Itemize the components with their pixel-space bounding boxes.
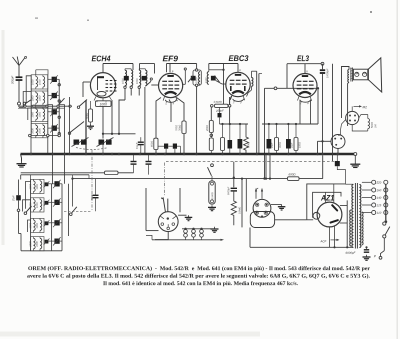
wire block1 row2 blob — [48, 95, 52, 97]
wire bus right end — [354, 156, 356, 163]
capacitor 200pF antenna — [16, 76, 23, 78]
capacitor 25uF b — [286, 139, 291, 149]
switch lever block2 — [26, 206, 32, 212]
switch lever 4 — [70, 122, 84, 133]
IF transformer 3 frame — [193, 70, 201, 85]
label coil L1b — [39, 79, 41, 84]
wire mains down — [383, 238, 385, 251]
label 25uF 300 — [271, 142, 273, 148]
resistor pot lower — [209, 138, 213, 151]
wire EF9 drop mid — [169, 100, 171, 123]
scan edge left — [2, 30, 5, 245]
osc coil L8b — [40, 238, 42, 249]
wire block2 bottom — [21, 250, 62, 252]
label AZ1 — [321, 195, 334, 201]
caption line 1 — [28, 266, 370, 271]
wire block1 left loop3 — [28, 108, 31, 120]
label coil L3a — [32, 112, 34, 117]
label ECH4 — [92, 56, 111, 62]
ground right — [354, 162, 356, 164]
label IF3 — [196, 78, 198, 83]
wire PU shell to AZ1 — [275, 219, 307, 221]
wire socket M2 bottom — [341, 120, 346, 136]
terminal block1 bottom — [29, 134, 32, 137]
wire block2 left loop3 — [28, 220, 31, 232]
wire y88 line — [265, 87, 319, 89]
wire M2 stem — [351, 106, 353, 111]
resistor 150ohm — [294, 138, 298, 151]
label 10000pF EL3 — [327, 68, 329, 78]
wire lamps rail — [182, 228, 211, 230]
wire switch block2 drop — [18, 212, 20, 234]
dial lamp 3 — [200, 228, 202, 230]
terminal EL3 toprail — [321, 62, 324, 65]
wire AVC cont — [118, 172, 134, 174]
ground PU — [281, 205, 283, 207]
label coil L2b — [39, 96, 41, 101]
wire block1 row3 blob — [48, 111, 52, 113]
trimmer capacitor block1 row3 — [52, 109, 57, 114]
rotor lever — [162, 198, 166, 212]
variable capacitor TC1 — [74, 140, 80, 145]
dial lamp 2 — [192, 228, 194, 230]
wire block1 row4 blob — [48, 127, 52, 129]
junction y124 — [268, 123, 270, 125]
capacitor 25uF EL3 — [267, 139, 272, 149]
label 50k b — [247, 142, 249, 148]
ground lamps — [214, 227, 216, 229]
label 700ohm — [175, 125, 177, 131]
wire IF2 drop — [138, 89, 140, 96]
switch bus line a — [18, 105, 72, 107]
IF2 terminals — [138, 86, 140, 88]
antenna coil L3a — [36, 109, 38, 120]
wire block1 bottom drops — [30, 137, 32, 154]
IF transformer 4 coil — [207, 72, 209, 85]
label 0,1uF — [136, 143, 138, 149]
ground rotor — [188, 215, 190, 217]
socket M2 — [346, 111, 359, 124]
junction block1 row3 — [58, 116, 60, 118]
wire antenna down — [18, 81, 20, 102]
switch lever block2 b — [71, 207, 77, 214]
wire block2 row2 blob — [48, 201, 54, 203]
label coil L4b — [39, 128, 41, 133]
resistor 0,5M EBC3 — [215, 104, 229, 107]
wire y124 rail left — [220, 123, 249, 125]
resistor 1M — [221, 138, 225, 151]
switch lever 1 — [25, 100, 31, 104]
wire transformer bottom — [250, 246, 353, 248]
scan speck 2 — [87, 20, 89, 22]
transformer primary — [352, 185, 353, 248]
wire IF2 grid lever — [145, 82, 150, 87]
junction EL3 grid — [317, 87, 319, 89]
label 50pF — [91, 194, 93, 200]
caption line 2 — [27, 274, 370, 279]
wire PU right ground — [271, 204, 282, 206]
wire vpair b — [258, 74, 260, 154]
capacitor 250pF — [218, 113, 222, 117]
socket PU shell — [250, 212, 274, 228]
capacitor below bus 2 — [146, 161, 152, 163]
wire 600 right — [299, 178, 323, 180]
wire rotor bottom — [155, 239, 168, 241]
wire AZ1 inner box — [313, 192, 341, 218]
IF3 core — [191, 76, 196, 81]
label 200pF — [11, 76, 14, 84]
field coil 500 — [368, 119, 370, 129]
tube AZ1 — [317, 202, 342, 227]
label 70k — [179, 125, 181, 131]
osc coil frame row4 — [31, 237, 44, 251]
wire EL3 pin drops — [299, 101, 301, 125]
wire drop x224 — [223, 64, 225, 105]
switch contacts top row — [23, 102, 26, 105]
transformer core — [354, 183, 356, 249]
capacitor 50pF osc — [93, 194, 99, 196]
wire rotor right vertical — [179, 188, 181, 212]
wire 0,5M right drop — [229, 107, 231, 124]
speaker box — [353, 69, 368, 80]
speaker cone — [368, 58, 382, 92]
tube EBC3 — [226, 72, 250, 96]
wire block1 left loop2 — [19, 92, 31, 108]
junction y178 dots — [241, 177, 243, 179]
label EBC3 — [229, 55, 249, 61]
label IF1 — [122, 78, 124, 83]
voltage selector circles — [384, 180, 388, 184]
label 25uF osc — [12, 195, 14, 201]
trimmer capacitor block1 row4 — [52, 126, 57, 131]
variable capacitor TC2 — [99, 140, 105, 145]
resistor 50k ECH4 — [89, 109, 93, 122]
osc coil L8a — [33, 238, 35, 249]
trimmer capacitor block2 row2 — [54, 200, 59, 205]
wire x322 drop — [322, 64, 324, 70]
ground bus — [21, 153, 355, 156]
caption line 3 — [103, 281, 298, 286]
wire ECH4 drop heavy — [85, 100, 87, 154]
wire AZ1 box — [307, 184, 346, 220]
antenna — [18, 66, 20, 79]
tube EF9 — [159, 73, 183, 97]
label P — [374, 255, 376, 257]
wire pot feed — [210, 107, 212, 120]
dial lamp 1 — [184, 228, 186, 230]
label 0,5M EBC3 — [214, 101, 222, 103]
socket PU — [253, 199, 271, 217]
terminal y88 — [274, 87, 277, 90]
wave switch rotor — [158, 212, 178, 232]
output transformer coil — [348, 70, 349, 83]
scan speck 3 — [370, 11, 372, 13]
resistor 50k b — [244, 124, 249, 154]
antenna coil L2b — [43, 93, 45, 104]
wire AVC double a — [21, 172, 105, 174]
capacitor 5000 top — [335, 161, 340, 166]
wire ECH4 grid left — [83, 81, 90, 83]
resistor 650 EF9 — [154, 138, 158, 149]
capacitor 25uF osc — [16, 195, 21, 200]
capacitor below bus 1 — [131, 161, 137, 163]
wire x264 drop — [264, 88, 266, 178]
terminal antenna — [18, 102, 21, 105]
padder small block2 row3 — [45, 221, 49, 225]
wire S2 bottom — [337, 149, 339, 154]
wire 70k down — [183, 134, 185, 154]
wire field coil bottom — [352, 125, 368, 131]
osc coil L7a — [33, 220, 35, 231]
wire EL3 top — [304, 64, 306, 74]
trimmer capacitor block2 row1 — [54, 181, 59, 186]
label coil L2a — [32, 96, 34, 101]
wire x318 drop — [317, 88, 319, 124]
padder small block2 row1 — [45, 182, 49, 186]
wire block1 top — [36, 70, 48, 75]
trimmer capacitor block2 row3 — [54, 220, 59, 225]
antenna coil L4a — [36, 125, 38, 136]
wire block2 left loop1 — [26, 182, 31, 209]
label coil L7a — [29, 223, 31, 228]
label 0,5M zigzag — [239, 207, 241, 214]
wire vpair a — [256, 71, 258, 153]
trimmer capacitor block2 row4 — [54, 239, 59, 244]
gang link dashed curve — [76, 148, 108, 150]
wire lamps left — [146, 235, 152, 239]
switch bus line b — [18, 107, 65, 109]
wire EF9 pin3 riser — [183, 83, 186, 85]
padding 1000 box — [96, 101, 112, 107]
IF transformer 1 — [125, 70, 127, 85]
label EF9 — [163, 56, 178, 62]
AZ1 pins — [325, 192, 327, 203]
wire EF9 cap right — [177, 145, 181, 147]
capacitor 5000pF coupling — [231, 187, 237, 189]
wire x332 long — [332, 64, 334, 161]
wire PU bottom drop — [249, 228, 251, 248]
antenna coil frame row3 — [31, 107, 48, 121]
label coil L8b — [36, 241, 38, 246]
IF3 arrow — [188, 76, 193, 83]
wire speaker top — [342, 67, 350, 119]
scan speck 1 — [35, 18, 38, 19]
antenna coil L1a — [36, 77, 38, 88]
label 5000pF — [228, 187, 230, 195]
osc coil L6a — [33, 200, 35, 211]
wire S2 left — [318, 140, 332, 142]
antenna coil frame row4 — [31, 124, 48, 138]
IF4 arrow — [215, 76, 220, 83]
label coil L4a — [32, 128, 34, 133]
wire loop IF2-EF9 — [140, 63, 155, 65]
wire ECH4 pin drop — [111, 100, 113, 134]
capacitor 10000pF EL3 — [320, 69, 325, 71]
osc coil frame row3 — [31, 218, 44, 232]
wire cap down — [337, 166, 345, 184]
wire 1000 box — [102, 98, 104, 101]
capacitor EF9 cathode 1 — [164, 144, 168, 149]
resistor 300ohm — [275, 138, 279, 151]
antenna coil frame row1 — [31, 75, 48, 89]
antenna coil L1b — [43, 77, 45, 88]
wire vpair top — [251, 71, 253, 78]
ground left — [21, 162, 23, 164]
wire x233 drop — [233, 162, 235, 188]
wire S2 top — [338, 134, 341, 136]
wire y124 rail — [262, 123, 318, 125]
label 600ohm — [289, 173, 296, 175]
label coil L7b — [36, 223, 38, 228]
osc coil frame row1 — [31, 179, 44, 193]
wire EF9 top — [169, 64, 171, 73]
IF4 core — [211, 76, 216, 81]
wire IF1 drops — [124, 89, 126, 101]
switch lever 3 — [79, 100, 87, 107]
osc coil frame row2 — [31, 198, 44, 212]
label 650 — [151, 141, 153, 147]
speaker post 1 — [355, 72, 359, 76]
junction block1 row4 — [58, 132, 60, 134]
label ACF — [320, 240, 326, 242]
bus left end ground — [21, 154, 22, 162]
label coil L5a — [29, 184, 31, 189]
wire loop EF9-IF3 — [167, 63, 197, 65]
transformer primary inner — [350, 210, 352, 246]
tube EL3 — [293, 74, 317, 98]
label coil L5b — [36, 184, 38, 189]
wire block1 bottom — [30, 135, 61, 137]
wire block2 row4 blob — [48, 240, 54, 242]
wire AZ1 plate leads — [340, 205, 347, 207]
IF transformer 2 — [139, 70, 141, 85]
wire rotor left vertical — [145, 188, 147, 231]
wire block1 mid rail — [47, 75, 49, 136]
label coil L8a — [29, 241, 31, 246]
junction PU top — [263, 177, 265, 179]
rotor dashdot link — [163, 163, 165, 197]
switch contacts block2 — [17, 209, 20, 212]
wire AVC double b — [21, 174, 89, 176]
transformer taps — [362, 181, 372, 183]
wire field coil top — [359, 115, 368, 119]
wire y133 link — [103, 133, 136, 135]
wire x266 x270 drops — [265, 154, 267, 179]
wire EL3 top rail — [287, 63, 323, 65]
antenna coil frame row2 — [31, 91, 48, 105]
label IF2 — [136, 78, 138, 83]
speaker post 2 — [363, 72, 367, 76]
ground ECH4 cathode — [90, 124, 92, 126]
padder small block2 row4 — [45, 240, 49, 244]
label coil L1a — [32, 79, 34, 84]
antenna coil L4b — [43, 125, 45, 136]
wire x287 drop — [286, 64, 288, 89]
wire IF2 grid to EF9 — [151, 84, 158, 86]
wire EF9 drop right — [177, 98, 185, 122]
wire block1 row1 blob — [48, 78, 52, 80]
label 6000pF — [346, 252, 356, 255]
wire AVC to lever — [72, 179, 74, 207]
label 50k — [86, 113, 88, 119]
scan edge right — [397, 0, 398, 339]
resistor 600ohm — [288, 177, 300, 181]
wire loop ECH4-IF1 — [103, 63, 133, 65]
wire block1 drop B — [64, 105, 66, 154]
wire rotor right — [178, 214, 186, 216]
label M2 — [354, 105, 360, 107]
wire speaker bottom — [348, 82, 349, 126]
label coil L3b — [39, 112, 41, 117]
wire IF3 drop — [196, 86, 198, 153]
wire PU box left — [241, 179, 243, 228]
wire block1 left rail — [30, 75, 32, 136]
IF3 terminals — [195, 69, 197, 71]
wire block2 drops from bus — [52, 155, 54, 184]
IF1 terminals — [124, 86, 126, 88]
terminal pot mid — [210, 134, 213, 137]
osc coil L6b — [40, 200, 42, 211]
wire primary top — [346, 183, 354, 185]
wire block2 blob rail — [61, 184, 63, 251]
osc coil L5b — [40, 181, 42, 192]
wire block2 row1 blob — [48, 183, 54, 185]
socket S2 — [331, 135, 345, 149]
wire block1 drop A — [52, 105, 54, 154]
IF transformer 3 coil — [199, 72, 201, 85]
wire block1 left loop1 — [26, 76, 31, 103]
osc coil L7b — [40, 220, 42, 231]
label 500ohm — [371, 122, 373, 128]
label coil L6a — [29, 202, 31, 207]
label 25uF 150 — [291, 142, 293, 148]
capacitor 0,1uF — [138, 141, 144, 143]
antenna coil L2a — [36, 93, 38, 104]
PU arrows — [255, 190, 257, 199]
wire block1 drop C — [69, 97, 71, 154]
wire block2 row3 blob — [48, 222, 54, 224]
wire loop IF4-EBC3 — [209, 63, 238, 65]
capacitor 5000 EBC3b — [238, 139, 243, 149]
label 20k — [206, 125, 208, 131]
capacitor 10000pF EBC3 — [228, 140, 233, 149]
transformer secondary inner — [362, 212, 364, 245]
trimmer capacitor block1 row1 — [52, 77, 57, 82]
resistor 0,5M zigzag — [231, 191, 236, 225]
scan edge bottom — [0, 332, 260, 337]
label coil L6b — [36, 202, 38, 207]
junction block1 row1 — [58, 84, 60, 86]
capacitor 6000pF — [364, 249, 369, 251]
output transformer core — [350, 68, 352, 82]
label EL3 — [297, 55, 309, 61]
gang link dashdot vertical — [91, 150, 93, 211]
resistor AVC — [105, 171, 119, 174]
label IF4 — [205, 78, 207, 83]
wire block2 far rail — [68, 184, 70, 236]
selector link — [385, 184, 387, 220]
wire AVC line — [73, 178, 288, 180]
tube ECH4 — [90, 73, 115, 98]
ground pot — [211, 205, 213, 207]
osc coil L5a — [33, 181, 35, 192]
transformer secondary — [359, 185, 361, 248]
EBC3 plate coil — [252, 78, 253, 87]
wire ECH4 top — [102, 64, 104, 73]
resistor 20k — [209, 121, 213, 133]
label 250pF — [216, 110, 224, 112]
gang link dashed horiz — [64, 210, 92, 212]
